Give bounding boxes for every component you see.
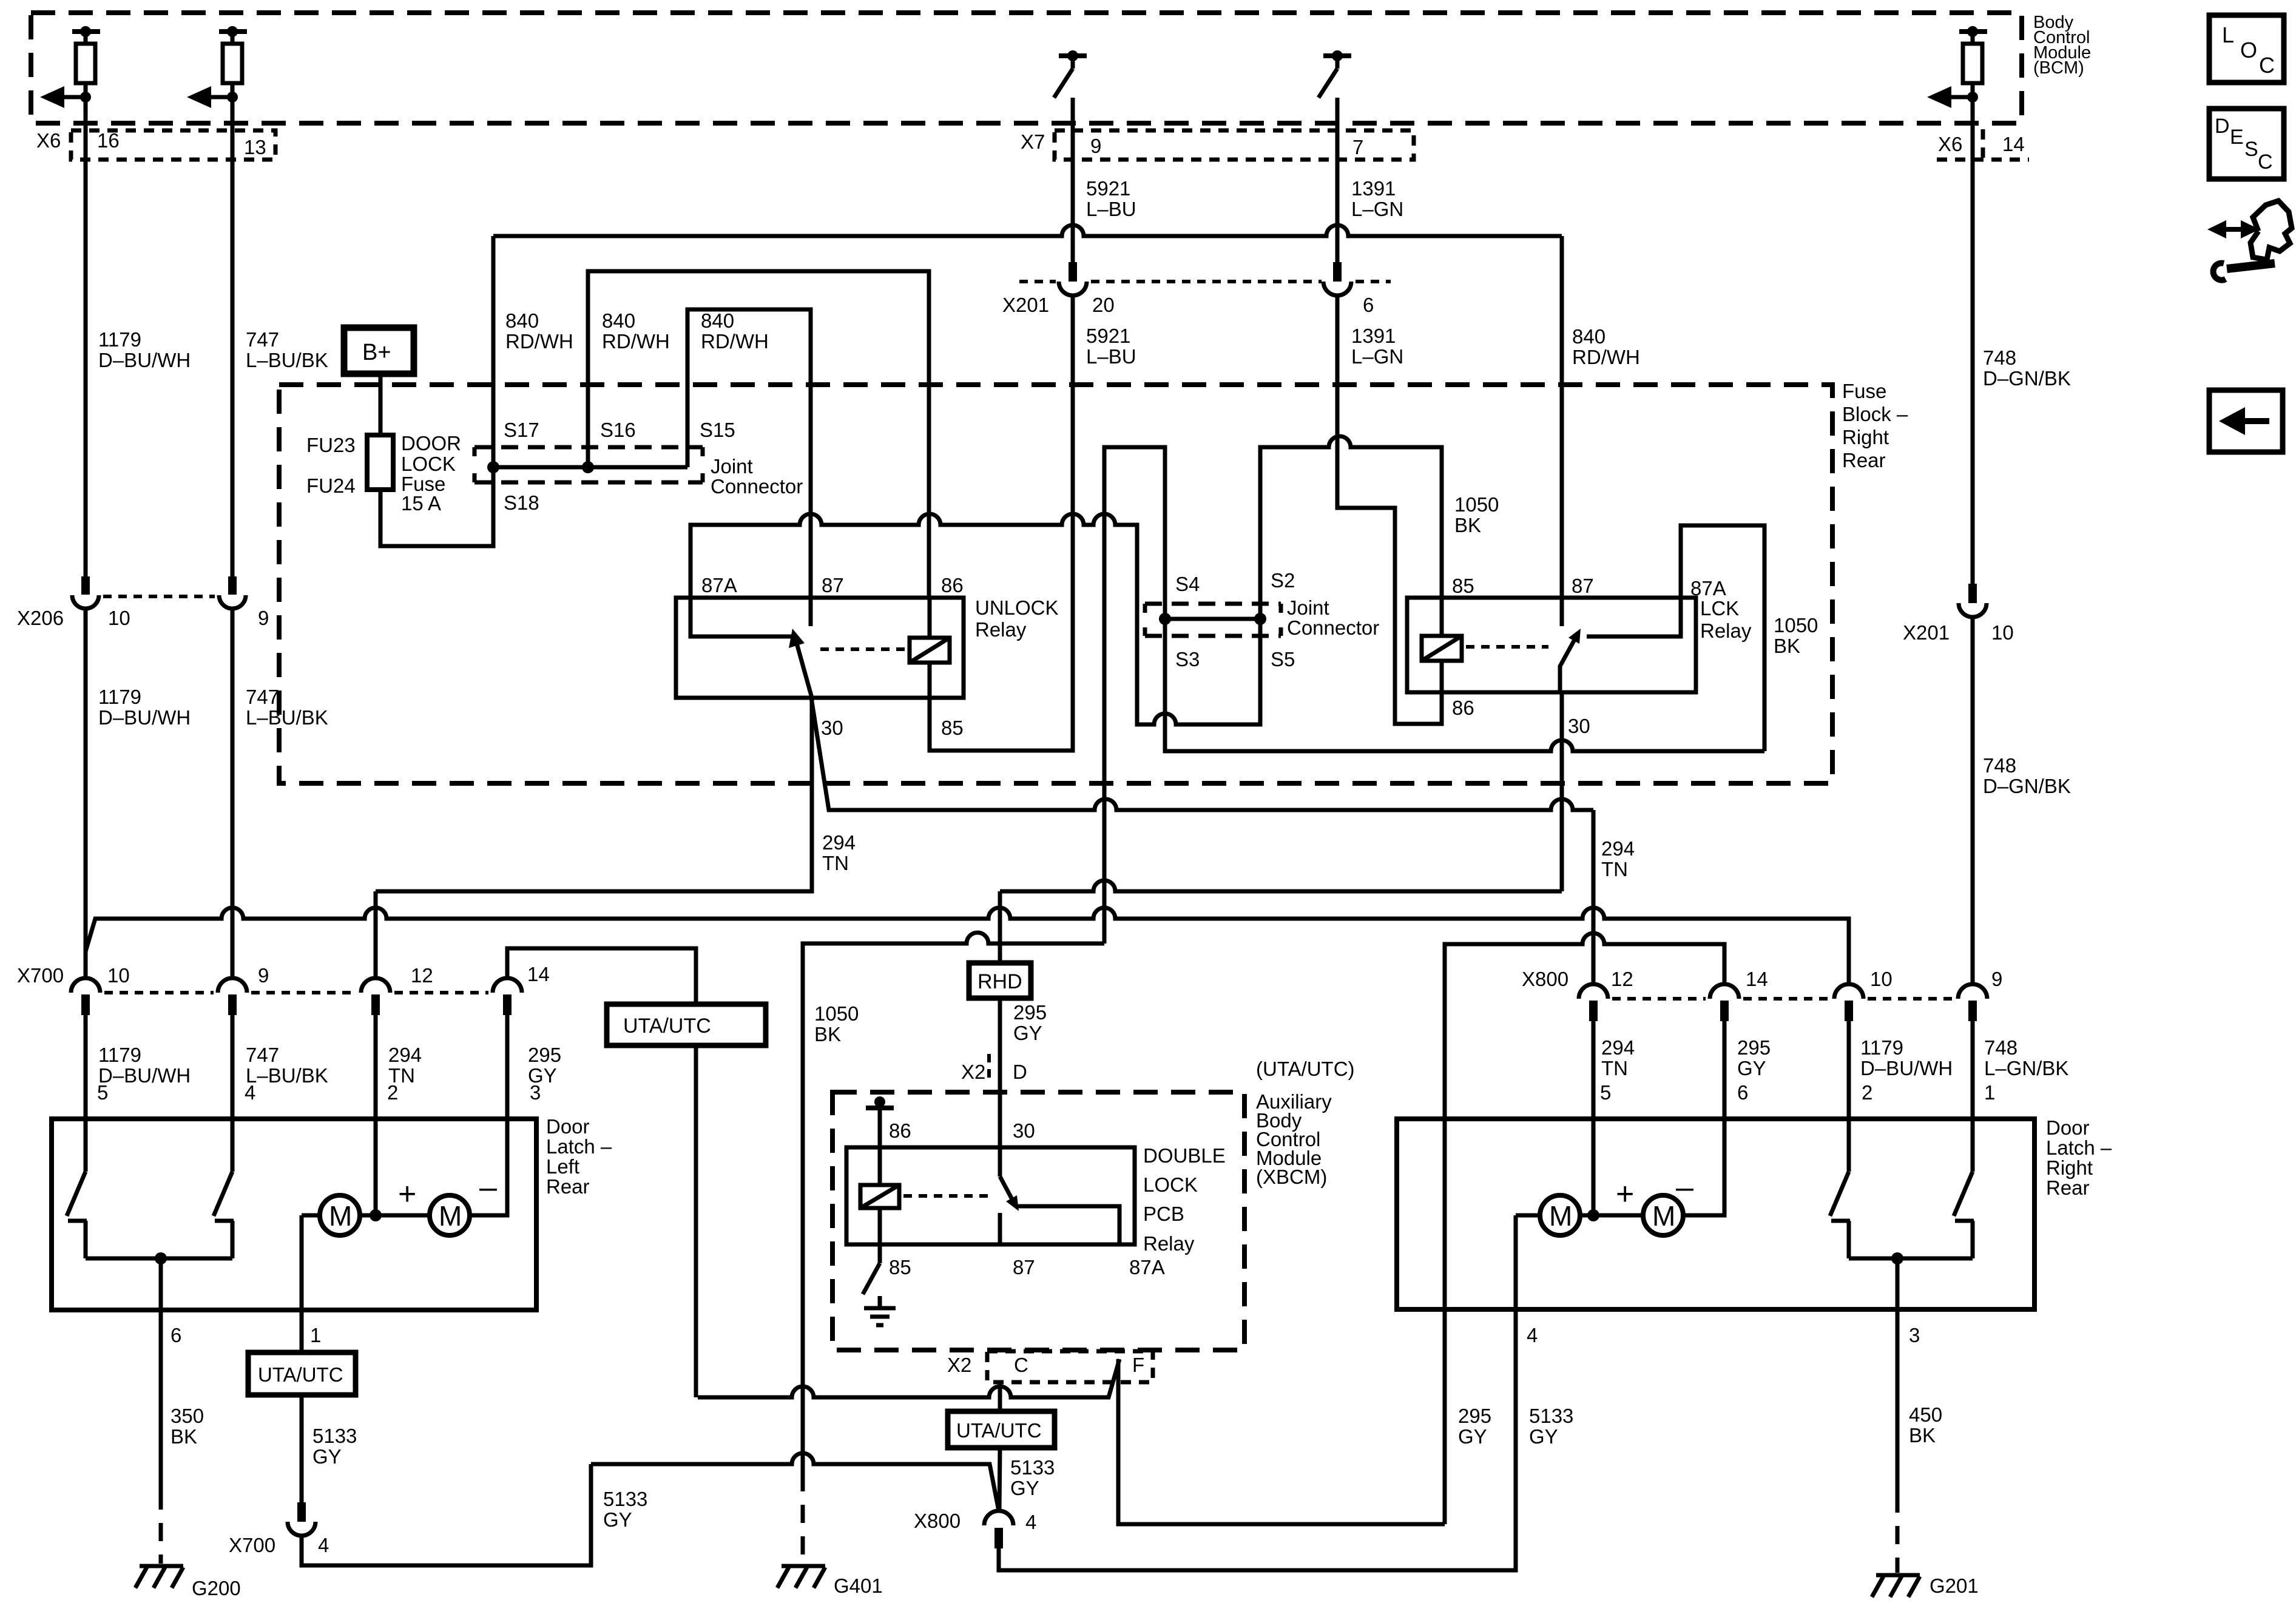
- svg-text:X2: X2: [947, 1354, 971, 1376]
- svg-text:295: 295: [1013, 1001, 1047, 1024]
- svg-text:D–BU/WH: D–BU/WH: [1860, 1057, 1953, 1079]
- XBCM relay 87 stub: [998, 1213, 1002, 1244]
- svg-text:87A: 87A: [1129, 1256, 1165, 1278]
- svg-text:UTA/UTC: UTA/UTC: [258, 1363, 343, 1386]
- svg-text:S16: S16: [600, 419, 636, 441]
- svg-text:294: 294: [1601, 1036, 1635, 1059]
- svg-text:X6: X6: [1938, 133, 1962, 155]
- svg-text:840: 840: [701, 309, 734, 332]
- wire from fuse to S18 of joint connector: [380, 467, 493, 546]
- svg-text:Connector: Connector: [1287, 616, 1379, 639]
- right latch: ajar switch 2 (pin 1): [1954, 1118, 1974, 1258]
- wire 1179 branch line across to X800-10 (hops 747, 294, RHD, 1050 riser, 294 right): [86, 908, 1849, 984]
- svg-text:747: 747: [246, 1044, 279, 1066]
- wire from B+ into fuse block: [379, 374, 383, 435]
- LCK relay coil on 85-86: [1422, 636, 1462, 661]
- svg-text:RD/WH: RD/WH: [505, 330, 573, 353]
- wire S2 riser up and over to LCK relay 85 (hops 1391): [1260, 436, 1442, 619]
- svg-text:87A: 87A: [701, 574, 737, 596]
- svg-text:RHD: RHD: [977, 970, 1022, 993]
- wire 5133 GY from UTA/UTC to X700-4: [300, 1395, 304, 1504]
- svg-text:87A: 87A: [1690, 577, 1726, 599]
- svg-text:DOUBLE: DOUBLE: [1143, 1144, 1226, 1167]
- wires X700 row down into left door latch: [84, 1015, 88, 1119]
- svg-text:87: 87: [1013, 1256, 1035, 1278]
- svg-text:D–BU/WH: D–BU/WH: [98, 349, 191, 371]
- arrow (to left) under resistor 2: [187, 86, 238, 108]
- svg-text:Connector: Connector: [711, 475, 803, 498]
- svg-text:X700: X700: [17, 964, 64, 987]
- wire 450 BK from right latch pin 3: [1896, 1326, 1900, 1494]
- wire 87A feed from UNLOCK 87A over to S5 (hops 87, 86, 5921, S4 riser): [690, 514, 1260, 724]
- wire 1050 BK: LCK 87A jumper up over and down to ground bus: [1681, 525, 1764, 751]
- svg-text:Rear: Rear: [1842, 449, 1886, 471]
- svg-text:(BCM): (BCM): [2033, 58, 2084, 78]
- svg-text:20: 20: [1092, 294, 1115, 316]
- svg-text:E: E: [2230, 126, 2244, 149]
- resistor in BCM (left, pin 13 circuit 747): [219, 26, 247, 97]
- wire 840 RD/WH: S17 riser to feed bus: [491, 236, 496, 467]
- XBCM relay coil on 86-85: [878, 1147, 882, 1185]
- RHD option box: [969, 963, 1031, 998]
- svg-text:G401: G401: [834, 1575, 883, 1597]
- arrow (to left) under resistor 1: [40, 86, 91, 108]
- junction dot S4/S3: [1159, 613, 1171, 625]
- svg-text:15 A: 15 A: [401, 492, 441, 515]
- UNLOCK relay box: [676, 598, 964, 698]
- resistor in BCM (right, pin 14 circuit 748): [1959, 26, 1987, 97]
- wire 840 RD/WH: S16 up and over to UNLOCK relay 86: [588, 271, 929, 598]
- svg-text:9: 9: [258, 607, 269, 629]
- svg-text:G200: G200: [192, 1577, 241, 1599]
- wire 5133 GY from latch pin 1 to UTA/UTC: [300, 1310, 304, 1352]
- svg-text:GY: GY: [1529, 1425, 1558, 1448]
- wire 350 BK from latch pin 6: [159, 1310, 163, 1491]
- svg-text:BK: BK: [814, 1023, 841, 1045]
- wire 30 from LCK relay down to RHD link (hops 294): [1560, 692, 1564, 891]
- svg-text:5133: 5133: [1010, 1456, 1055, 1479]
- svg-text:3: 3: [1909, 1324, 1920, 1346]
- wire 1050 BK from S4 link down to G401 (corner): [803, 933, 1104, 1473]
- wire 5133 GY from UTA/UTC down to X800-4: [999, 1448, 1000, 1511]
- svg-text:O: O: [2240, 38, 2257, 62]
- svg-text:C: C: [1014, 1354, 1028, 1376]
- svg-text:LOCK: LOCK: [401, 453, 456, 475]
- svg-text:Right: Right: [1842, 426, 1889, 448]
- svg-text:TN: TN: [1601, 858, 1628, 880]
- svg-text:86: 86: [941, 574, 964, 596]
- wire S3 down then right to LCK 87A ground bus (hops LCK 30): [1165, 619, 1764, 751]
- svg-text:D–GN/BK: D–GN/BK: [1983, 775, 2071, 797]
- svg-text:UTA/UTC: UTA/UTC: [623, 1014, 711, 1038]
- svg-text:10: 10: [108, 607, 130, 629]
- svg-text:294: 294: [1601, 837, 1635, 860]
- svg-text:Block –: Block –: [1842, 403, 1908, 425]
- XBCM relay 86 internal termination: [866, 1096, 894, 1147]
- svg-text:1: 1: [310, 1324, 321, 1346]
- connector X201 pin 10: [1903, 584, 2014, 644]
- svg-text:Latch –: Latch –: [2046, 1136, 2112, 1159]
- connector X800 row: [1522, 968, 2002, 1021]
- BCM switch for X7-7 (lock output): [1319, 50, 1351, 98]
- left latch: lock motor M1: [320, 1195, 360, 1235]
- svg-text:30: 30: [1013, 1119, 1035, 1142]
- svg-text:GY: GY: [312, 1445, 342, 1468]
- svg-text:12: 12: [411, 964, 433, 987]
- dashed lead to ground G201: [1896, 1494, 1900, 1573]
- UNLOCK relay coil on 86-85: [928, 598, 932, 638]
- svg-text:16: 16: [97, 129, 120, 152]
- svg-text:L–GN/BK: L–GN/BK: [1984, 1057, 2068, 1079]
- wire 295 GY from RHD to XBCM relay 30: [998, 998, 1002, 1176]
- svg-text:X2: X2: [961, 1061, 985, 1083]
- svg-text:X800: X800: [914, 1510, 961, 1532]
- BCM switch for X7-9 (unlock output): [1054, 50, 1087, 98]
- svg-text:S15: S15: [700, 419, 735, 441]
- wire 295 GY link from LCK 30 left to RHD (hops S4/1050 riser): [1000, 880, 1562, 891]
- wire 5921 L-BU from X201-20 down then left to UNLOCK relay 85: [930, 295, 1073, 751]
- wire 1391 L-GN from BCM switch to X201-6: [1335, 98, 1340, 263]
- svg-text:G201: G201: [1930, 1575, 1979, 1597]
- wire 294 TN from X700-12 up to the 294 line: [374, 891, 378, 978]
- svg-text:TN: TN: [1601, 1057, 1628, 1079]
- wire 5133 GY run to X800-4 (hops 1050 BK): [591, 1453, 999, 1511]
- svg-text:1050: 1050: [1454, 493, 1499, 516]
- right latch: link M1 to M2 with junction from pin 5: [1580, 1214, 1643, 1218]
- LOC legend box: [2209, 15, 2284, 83]
- svg-text:1179: 1179: [98, 328, 141, 351]
- left-arrow legend box: [2209, 390, 2283, 452]
- dashed lead to ground G200: [159, 1491, 163, 1564]
- right latch: ajar switch 1 (pin 2): [1830, 1118, 1850, 1258]
- svg-text:X206: X206: [17, 607, 64, 629]
- svg-text:D–BU/WH: D–BU/WH: [98, 1064, 191, 1087]
- diagnostic arrows / wrench icon: [2207, 201, 2292, 280]
- UNLOCK relay 87A contact: [690, 598, 792, 636]
- svg-text:Right: Right: [2046, 1156, 2093, 1179]
- svg-text:Rear: Rear: [546, 1175, 590, 1198]
- svg-text:Left: Left: [546, 1155, 579, 1178]
- connector X6 pin 14 (right): [1981, 129, 1985, 160]
- svg-text:Relay: Relay: [975, 618, 1027, 641]
- svg-text:Door: Door: [2046, 1116, 2090, 1139]
- wire 1179 from X206-10 down to X700-10: [84, 609, 88, 978]
- svg-text:Rear: Rear: [2046, 1176, 2090, 1199]
- left latch: lock motor M2: [430, 1195, 470, 1235]
- LCK relay 85 stub above coil: [1440, 598, 1444, 636]
- svg-text:S18: S18: [504, 491, 539, 514]
- svg-text:F: F: [1132, 1354, 1144, 1376]
- svg-text:5: 5: [97, 1081, 108, 1104]
- svg-text:2: 2: [387, 1081, 398, 1104]
- svg-text:UTA/UTC: UTA/UTC: [956, 1419, 1042, 1442]
- svg-text:GY: GY: [1737, 1057, 1766, 1079]
- svg-text:2: 2: [1862, 1081, 1872, 1104]
- UNLOCK relay switch lever (30 to 87A): [795, 639, 812, 698]
- wire from X2-F down-slant and left to UTA/UTC riser (hops 1050, 87 wire): [698, 1359, 1119, 1397]
- svg-text:Fuse: Fuse: [1842, 380, 1886, 402]
- svg-text:FU24: FU24: [306, 474, 356, 497]
- svg-text:BK: BK: [1774, 635, 1800, 657]
- svg-text:S4: S4: [1175, 573, 1200, 595]
- ground G401: [777, 1566, 883, 1597]
- wire 5133 GY from X800-4 right to right latch pin 4: [999, 1326, 1516, 1570]
- LCK relay 87 stub: [1560, 598, 1564, 626]
- svg-text:RD/WH: RD/WH: [602, 330, 670, 353]
- svg-text:1179: 1179: [98, 686, 141, 708]
- svg-text:GY: GY: [603, 1508, 632, 1531]
- svg-text:450: 450: [1909, 1403, 1942, 1426]
- junction dot S16: [582, 461, 594, 473]
- Body Control Module (BCM) dashed box: [31, 13, 2022, 123]
- svg-text:295: 295: [1458, 1405, 1491, 1427]
- svg-text:1: 1: [1984, 1081, 1995, 1104]
- XBCM relay coil-lever dashed link: [903, 1194, 988, 1198]
- ground G200: [135, 1566, 241, 1599]
- connector X201 pin 6: [1323, 262, 1391, 316]
- Auxiliary Body Control Module (XBCM) dashed box: [832, 1092, 1244, 1350]
- UNLOCK relay coil-lever dashed link: [820, 647, 905, 651]
- svg-text:+: +: [1616, 1176, 1634, 1212]
- connector X700 pin 4: [229, 1502, 329, 1556]
- svg-text:1179: 1179: [1860, 1036, 1903, 1059]
- svg-text:S17: S17: [504, 419, 539, 441]
- svg-text:1391: 1391: [1351, 325, 1396, 347]
- left latch: ajar switch 1 (pin 5): [67, 1119, 87, 1258]
- svg-text:85: 85: [941, 717, 964, 739]
- connector X201 pin 20: [1002, 262, 1322, 316]
- svg-text:L–BU: L–BU: [1086, 198, 1136, 220]
- svg-text:BK: BK: [171, 1425, 197, 1448]
- svg-text:DOOR: DOOR: [401, 432, 461, 454]
- svg-text:L–BU: L–BU: [1086, 345, 1136, 368]
- svg-text:350: 350: [171, 1405, 204, 1427]
- LCK relay coil-lever dashed link: [1466, 645, 1548, 649]
- svg-text:294: 294: [822, 831, 856, 854]
- svg-text:4: 4: [1025, 1511, 1036, 1533]
- wire 295 GY link from XBCM-87A riser to X800-14 (hops 294): [1445, 933, 1724, 1524]
- svg-text:Relay: Relay: [1143, 1232, 1195, 1255]
- wire 294 TN from UNLOCK 30 straight down then left to X700-12: [376, 698, 812, 891]
- svg-text:GY: GY: [1013, 1022, 1042, 1044]
- svg-text:6: 6: [171, 1324, 181, 1346]
- wire from UTA/UTC down to X2-F link: [694, 1045, 698, 1397]
- XBCM relay switch lever (30 to 87A): [1000, 1176, 1015, 1204]
- svg-text:D–BU/WH: D–BU/WH: [98, 706, 191, 729]
- svg-text:S: S: [2244, 138, 2258, 161]
- wire 294 TN drop to X800-12 (right column): [1592, 810, 1596, 984]
- svg-text:D: D: [1013, 1061, 1027, 1083]
- wire 5921 L-BU from BCM switch to X201-20: [1071, 98, 1075, 263]
- left latch: motor feed from pin 1 riser: [302, 1214, 320, 1218]
- svg-text:S3: S3: [1175, 648, 1200, 670]
- svg-text:S2: S2: [1271, 569, 1295, 592]
- UTA/UTC option box (upper): [607, 1004, 766, 1045]
- svg-text:86: 86: [889, 1119, 911, 1142]
- svg-text:M: M: [329, 1200, 352, 1232]
- svg-text:4: 4: [318, 1534, 329, 1556]
- junction dot S17/S18: [487, 461, 499, 473]
- wire 1179 D-BU/WH from BCM X6-16 down to X206: [84, 97, 88, 578]
- left latch: switch common bus to pin 6: [86, 1257, 232, 1261]
- right latch: lock motor M1: [1540, 1195, 1580, 1235]
- joint connector S2/S4 internal bus: [1165, 617, 1260, 621]
- UTA/UTC option box (left lower): [248, 1352, 356, 1395]
- svg-text:X700: X700: [229, 1534, 275, 1556]
- svg-text:7: 7: [1352, 136, 1363, 158]
- svg-text:(XBCM): (XBCM): [1256, 1166, 1327, 1188]
- svg-text:X201: X201: [1002, 294, 1049, 316]
- left latch: ajar switch 2 (pin 4): [214, 1119, 234, 1258]
- svg-text:LOCK: LOCK: [1143, 1173, 1198, 1196]
- svg-text:B+: B+: [362, 340, 391, 365]
- svg-text:5: 5: [1600, 1081, 1611, 1104]
- svg-text:840: 840: [1572, 325, 1606, 348]
- 840 RD/WH feed bus (hops over 5921 and 1391): [493, 225, 1562, 236]
- svg-text:L: L: [2222, 22, 2234, 47]
- svg-text:86: 86: [1452, 697, 1474, 719]
- connector X700 row: [17, 963, 550, 1015]
- svg-text:295: 295: [1737, 1036, 1771, 1059]
- junction dot S2/S5: [1254, 613, 1266, 625]
- connector X2 pins C and F dashed band: [987, 1351, 1153, 1382]
- wires X800 row down into right door latch: [1592, 1021, 1596, 1118]
- connector X800 pin 4: [914, 1510, 1036, 1548]
- svg-text:1050: 1050: [814, 1002, 859, 1025]
- svg-text:RD/WH: RD/WH: [1572, 346, 1640, 368]
- connector X7 dashed band: [1055, 130, 1414, 160]
- joint connector internal bus: [493, 465, 687, 470]
- svg-text:RD/WH: RD/WH: [701, 330, 769, 353]
- LCK relay 87A contact: [1587, 598, 1681, 636]
- svg-text:4: 4: [1527, 1324, 1538, 1346]
- wire 295 GY bottom link from X2-F to riser: [1118, 1359, 1445, 1524]
- joint connector S15/S16/S17/S18 dashed outline: [474, 419, 803, 514]
- svg-text:D–GN/BK: D–GN/BK: [1983, 367, 2071, 390]
- wire 748 D-GN/BK from BCM X6-14 down to X201-10: [1971, 97, 1975, 584]
- svg-text:GY: GY: [1010, 1477, 1039, 1499]
- svg-text:L–GN: L–GN: [1351, 198, 1403, 220]
- svg-text:13: 13: [244, 136, 266, 158]
- svg-text:3: 3: [530, 1081, 541, 1104]
- svg-text:D: D: [2215, 115, 2230, 138]
- svg-text:4: 4: [245, 1081, 255, 1104]
- DESC legend box: [2209, 109, 2284, 179]
- svg-text:87: 87: [1572, 575, 1594, 597]
- svg-text:+: +: [398, 1176, 416, 1212]
- svg-text:M: M: [439, 1200, 462, 1232]
- svg-text:85: 85: [889, 1256, 911, 1278]
- left latch: M2 to pin 3 riser: [470, 1119, 507, 1215]
- XBCM relay 85 to internal ground: [863, 1244, 896, 1325]
- svg-text:5133: 5133: [1529, 1405, 1573, 1427]
- wire 840 RD/WH: bus down to LCK relay 87: [1560, 236, 1564, 598]
- svg-text:295: 295: [528, 1044, 561, 1066]
- svg-text:X6: X6: [36, 129, 61, 152]
- svg-text:LCK: LCK: [1700, 597, 1739, 619]
- svg-text:M: M: [1652, 1200, 1675, 1232]
- wire 1391 L-GN from X201-6 down, jog right, to LCK relay 86: [1337, 295, 1442, 724]
- wire 747 from X206-9 down to X700-9: [231, 609, 235, 978]
- svg-text:BK: BK: [1909, 1424, 1936, 1447]
- svg-text:1050: 1050: [1774, 614, 1818, 636]
- svg-text:6: 6: [1737, 1081, 1748, 1104]
- DOUBLE LOCK PCB Relay box: [846, 1147, 1135, 1244]
- svg-text:12: 12: [1611, 968, 1633, 990]
- XBCM relay 87A contact: [1018, 1206, 1119, 1244]
- UTA/UTC option box (center lower): [948, 1411, 1055, 1448]
- wire 294 TN from UNLOCK 30 slanting right toward X800-12: [811, 698, 1593, 810]
- wire 5133 GY from X700-4 right and up to the 5133 run: [302, 1464, 591, 1565]
- svg-text:X201: X201: [1903, 621, 1950, 644]
- joint connector S2/S4/S3/S5 dashed outline: [1145, 569, 1379, 670]
- svg-text:748: 748: [1983, 346, 2016, 369]
- svg-text:–: –: [479, 1170, 497, 1205]
- svg-text:748: 748: [1983, 754, 2016, 777]
- svg-text:BK: BK: [1454, 514, 1481, 536]
- svg-text:UNLOCK: UNLOCK: [975, 596, 1059, 619]
- ground G201: [1872, 1575, 1979, 1597]
- svg-text:14: 14: [2002, 133, 2025, 155]
- svg-text:10: 10: [107, 964, 130, 987]
- arrow (to left) under resistor 3: [1927, 86, 1978, 108]
- svg-text:Latch –: Latch –: [546, 1135, 612, 1158]
- svg-text:C: C: [2259, 53, 2275, 78]
- connector X2 pin D: [961, 1054, 1027, 1083]
- Door Latch - Left Rear box: [52, 1119, 536, 1310]
- svg-text:X800: X800: [1522, 968, 1568, 990]
- svg-text:Door: Door: [546, 1115, 590, 1138]
- wire 87/X2-C down to UTA/UTC box: [998, 1382, 1002, 1411]
- svg-text:9: 9: [1090, 135, 1101, 157]
- DOOR LOCK Fuse 15A (FU23/FU24): [306, 432, 461, 515]
- svg-text:6: 6: [1363, 294, 1374, 316]
- svg-text:747: 747: [246, 328, 279, 351]
- svg-text:14: 14: [527, 963, 550, 985]
- svg-text:9: 9: [1991, 968, 2002, 990]
- wire 747 L-BU/BK from BCM X6-13 down to X206: [231, 97, 235, 578]
- svg-text:1391: 1391: [1351, 177, 1396, 200]
- svg-text:1179: 1179: [98, 1044, 141, 1066]
- svg-text:14: 14: [1746, 968, 1768, 990]
- svg-text:PCB: PCB: [1143, 1203, 1184, 1225]
- svg-text:5921: 5921: [1086, 325, 1130, 347]
- Fuse Block - Right Rear dashed box: [279, 385, 1832, 783]
- svg-text:85: 85: [1452, 575, 1474, 597]
- svg-text:30: 30: [1568, 715, 1590, 737]
- svg-text:5921: 5921: [1086, 177, 1130, 200]
- svg-text:(UTA/UTC): (UTA/UTC): [1256, 1058, 1355, 1080]
- connector X6 dashed band (left): [71, 130, 275, 160]
- svg-text:5133: 5133: [603, 1488, 647, 1510]
- svg-text:Relay: Relay: [1700, 619, 1752, 642]
- svg-text:294: 294: [388, 1044, 422, 1066]
- svg-text:30: 30: [821, 717, 843, 739]
- UNLOCK relay 87 stub: [809, 598, 813, 626]
- svg-text:747: 747: [246, 686, 279, 708]
- left latch: link M1 to M2 with junction from pin 2: [360, 1214, 430, 1218]
- svg-text:FU23: FU23: [306, 434, 356, 456]
- svg-text:L–GN: L–GN: [1351, 345, 1403, 368]
- right latch: M2 to pin 6 riser: [1683, 1118, 1724, 1215]
- svg-text:GY: GY: [1458, 1425, 1487, 1448]
- svg-text:87: 87: [822, 574, 844, 596]
- svg-text:10: 10: [1870, 968, 1893, 990]
- wire 295 GY from X700-14 up and over to UTA/UTC: [507, 948, 696, 1004]
- svg-text:L–BU/BK: L–BU/BK: [246, 706, 328, 729]
- svg-text:L–BU/BK: L–BU/BK: [246, 1064, 328, 1087]
- B+ battery feed box: [344, 328, 414, 374]
